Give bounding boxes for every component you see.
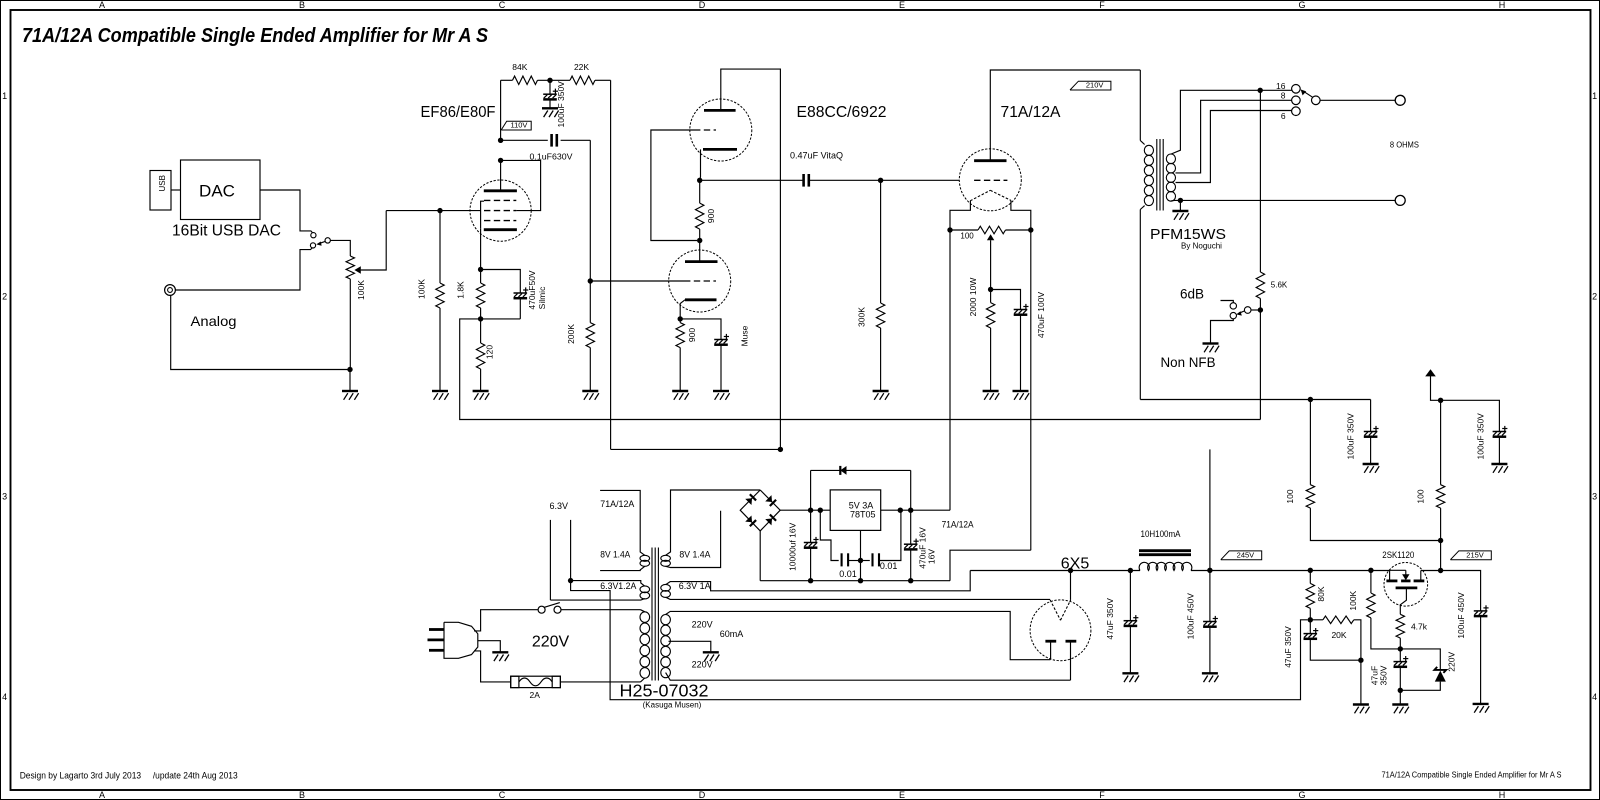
svg-text:1: 1 xyxy=(1592,91,1597,101)
svg-text:220V: 220V xyxy=(1447,652,1457,672)
P1 earth wire xyxy=(478,641,501,653)
svg-text:100uF 350V: 100uF 350V xyxy=(1346,413,1356,460)
ground C2 xyxy=(542,107,558,109)
svg-text:Silmic: Silmic xyxy=(537,286,547,309)
power transformer T2 H25-07032 core xyxy=(651,548,653,681)
bias cap C15 47uF 350V xyxy=(1309,620,1311,634)
svg-text:16: 16 xyxy=(1276,81,1286,91)
node first filter cap xyxy=(1128,568,1133,573)
tap terminal 16 xyxy=(1292,85,1301,94)
ground R9 xyxy=(873,390,889,392)
svg-text:47uF 350V: 47uF 350V xyxy=(1105,598,1115,640)
E88CC lower triode V2b xyxy=(669,250,731,312)
V2a cathode xyxy=(703,148,737,151)
svg-text:100uF 450V: 100uF 450V xyxy=(1186,593,1196,640)
svg-text:6.3V: 6.3V xyxy=(549,501,568,511)
V2a grid dashed xyxy=(694,129,716,131)
svg-text:2A: 2A xyxy=(529,690,540,700)
voltage flag 110V xyxy=(501,121,531,130)
svg-text:300K: 300K xyxy=(857,307,867,327)
svg-text:71A/12A: 71A/12A xyxy=(1001,104,1061,121)
svg-text:E: E xyxy=(899,0,905,10)
svg-text:100: 100 xyxy=(1416,489,1426,503)
voltage flag 245V xyxy=(1221,551,1262,560)
SRPP resistor R7 900 xyxy=(696,203,704,229)
T2 HV secondary 220V 60mA xyxy=(661,615,671,625)
node 215V out xyxy=(1438,568,1443,573)
tap terminal 6 xyxy=(1292,107,1301,116)
svg-text:1: 1 xyxy=(2,91,7,101)
svg-text:4: 4 xyxy=(2,692,7,702)
grid leak resistor R6 200K xyxy=(586,323,594,348)
wire switch node to NFB line xyxy=(1259,310,1261,420)
EF86 grid g1 dashed xyxy=(484,220,516,222)
node SRPP output xyxy=(697,178,702,183)
svg-text:78T05: 78T05 xyxy=(850,509,876,519)
P1 prongs xyxy=(429,628,444,631)
grid resistor R1 100K xyxy=(439,211,441,283)
wire source node up to droppers xyxy=(1440,541,1442,571)
AC plug P1 xyxy=(444,622,478,658)
svg-text:4: 4 xyxy=(1592,692,1597,702)
svg-text:E: E xyxy=(899,790,905,800)
svg-text:4.7k: 4.7k xyxy=(1411,621,1428,631)
filter cap C7 100uF 350V xyxy=(1370,400,1372,432)
node EF86 grid xyxy=(437,208,442,213)
filament rail left to regulator xyxy=(949,230,951,510)
ground R8 xyxy=(672,390,688,392)
U1 ground pin xyxy=(860,530,862,580)
svg-text:8: 8 xyxy=(1281,91,1286,101)
svg-text:2SK1120: 2SK1120 xyxy=(1382,550,1414,560)
V2b plate xyxy=(685,260,718,263)
6X5 tube V4 xyxy=(1030,600,1091,661)
ground bias divider xyxy=(1360,660,1362,704)
E88CC upper triode V2a xyxy=(690,99,752,161)
node plate feed g2 tap xyxy=(498,158,503,163)
reservoir cap C9 10000uf 16V xyxy=(810,510,812,542)
node 71A grid xyxy=(878,178,883,183)
ground R10 xyxy=(983,390,999,392)
node 80K top xyxy=(1308,568,1313,573)
USB connector box xyxy=(150,171,171,211)
output terminal minus xyxy=(1395,195,1405,205)
T2 winding 6.3V 1A right xyxy=(661,584,671,591)
V2a plate xyxy=(704,109,736,112)
node cathode return xyxy=(988,287,993,292)
svg-text:8 OHMS: 8 OHMS xyxy=(1390,140,1419,150)
wire analog input to selector switch xyxy=(175,248,312,290)
svg-text:8V 1.4A: 8V 1.4A xyxy=(600,550,630,560)
heater stub 6.3V wires xyxy=(549,520,551,600)
svg-text:245V: 245V xyxy=(1237,550,1255,559)
V4 right plate xyxy=(1066,640,1077,643)
svg-text:2000 10W: 2000 10W xyxy=(968,278,978,317)
0V rail xyxy=(760,580,950,582)
svg-text:100: 100 xyxy=(1285,489,1295,503)
svg-text:By Noguchi: By Noguchi xyxy=(1181,242,1222,251)
dropper resistor R13 100 xyxy=(1440,400,1442,484)
node V2b cathode xyxy=(678,316,683,321)
svg-text:16V: 16V xyxy=(926,549,936,564)
T1 secondary 8 ohm tap xyxy=(1176,100,1292,173)
node NFB takeoff xyxy=(1258,88,1263,93)
node 215V junction xyxy=(1438,538,1443,543)
svg-text:Muse: Muse xyxy=(740,325,750,346)
ground P1 earth xyxy=(492,651,508,653)
wire bridge minus to 0V rail xyxy=(759,531,761,581)
node lower plate / upper grid xyxy=(697,238,702,243)
svg-text:E88CC/6922: E88CC/6922 xyxy=(797,104,887,121)
svg-text:20K: 20K xyxy=(1331,630,1346,640)
volume potentiometer VR1 100K xyxy=(346,256,354,279)
node EF86 cathode xyxy=(478,267,483,272)
output terminal plus xyxy=(1395,95,1405,105)
bypass cap C4 Muse xyxy=(680,319,721,340)
V2b cathode lead xyxy=(680,300,685,319)
tap selector lever xyxy=(1303,91,1312,97)
svg-text:0.1uF630V: 0.1uF630V xyxy=(530,152,573,162)
output transformer T1 PFM15WS primary lead xyxy=(1139,70,1141,141)
svg-text:G: G xyxy=(1298,0,1305,10)
EF86 grid bracket and input xyxy=(440,210,481,212)
EF86 grid g3 dashed xyxy=(484,199,516,201)
svg-text:B: B xyxy=(299,0,305,10)
coupling cap C5 0.47uF VitaQ xyxy=(700,179,803,181)
svg-text:PFM15WS: PFM15WS xyxy=(1150,226,1226,243)
filter cap C13 47uF 350V xyxy=(1129,571,1131,621)
svg-text:84K: 84K xyxy=(512,62,527,72)
svg-text:C: C xyxy=(499,790,506,800)
node secondary ground xyxy=(1178,198,1183,203)
V3 plate lead to OPT xyxy=(990,70,1140,161)
svg-text:Analog: Analog xyxy=(191,313,237,329)
wire pot bottom to ground rail xyxy=(349,279,351,370)
V4 heater cathode xyxy=(1050,600,1060,620)
ground C4 xyxy=(713,390,729,392)
diode D3 xyxy=(745,515,752,522)
svg-text:470uF50V: 470uF50V xyxy=(527,270,537,310)
T1 secondary 6 ohm tap xyxy=(1176,111,1292,183)
svg-text:22K: 22K xyxy=(574,62,589,72)
svg-text:10000uf 16V: 10000uf 16V xyxy=(788,522,798,571)
T1 primary lead to B+ xyxy=(1139,210,1141,400)
tap selector pole xyxy=(1312,96,1321,105)
svg-text:3: 3 xyxy=(2,492,7,502)
svg-text:100K: 100K xyxy=(1348,590,1358,610)
svg-text:71A/12A Compatible Single Ende: 71A/12A Compatible Single Ended Amplifie… xyxy=(1382,771,1562,780)
71A tube V3 xyxy=(959,149,1021,211)
svg-text:100uF 350V: 100uF 350V xyxy=(556,81,566,128)
regulator U1 78T05 box xyxy=(830,490,881,531)
wire pole to output terminal xyxy=(1320,99,1395,101)
svg-text:DAC: DAC xyxy=(199,182,235,201)
tap terminal 8 xyxy=(1292,96,1301,105)
selector switch SW1 lever xyxy=(319,241,325,243)
svg-text:71A/12A: 71A/12A xyxy=(600,499,634,509)
node protection diode left xyxy=(818,508,823,513)
svg-text:200K: 200K xyxy=(566,324,576,344)
output cap C17 100uF 450V xyxy=(1441,571,1481,611)
svg-text:71A/12A Compatible Single Ende: 71A/12A Compatible Single Ended Amplifie… xyxy=(22,24,488,47)
VR2 wiper xyxy=(987,234,994,240)
svg-text:H: H xyxy=(1499,0,1506,10)
svg-text:100K: 100K xyxy=(356,280,366,300)
T2 winding 8V 1.4A left xyxy=(640,555,650,561)
svg-text:120: 120 xyxy=(485,345,495,359)
svg-text:100uF 350V: 100uF 350V xyxy=(1476,413,1486,460)
selector switch SW1 contact (Analog) xyxy=(310,243,315,248)
svg-text:47uF 350V: 47uF 350V xyxy=(1283,626,1293,668)
node NFB switch xyxy=(1258,307,1263,312)
245V rail xyxy=(1191,570,1390,572)
node gate network xyxy=(1398,646,1403,651)
selector switch SW1 pole xyxy=(325,238,330,243)
wire switch pole to volume pot xyxy=(330,240,350,256)
node filament right xyxy=(1028,227,1033,232)
wire node to lower plate xyxy=(699,241,701,262)
SW2 lower contact to ground xyxy=(1211,319,1234,344)
svg-text:6: 6 xyxy=(1281,111,1286,121)
svg-text:A: A xyxy=(99,0,105,10)
EF86 tube V1 xyxy=(470,180,531,241)
T1 secondary common wire xyxy=(1171,199,1395,202)
ground C8 xyxy=(1491,463,1507,465)
coupling cap C3 0.1uF630V xyxy=(501,139,548,141)
P1 live wire to mains switch xyxy=(474,610,538,631)
cathode resistor R10 2000 10W xyxy=(986,303,994,328)
node MOSFET drain rail xyxy=(1368,568,1373,573)
svg-text:A: A xyxy=(99,790,105,800)
svg-text:Non NFB: Non NFB xyxy=(1161,355,1216,370)
wire C3 to E88CC grid and 200K xyxy=(589,140,591,322)
node reservoir cap xyxy=(808,508,813,513)
svg-text:900: 900 xyxy=(687,328,697,342)
svg-text:B: B xyxy=(299,790,305,800)
cathode resistor R8 900 xyxy=(676,323,684,348)
svg-text:H25-07032: H25-07032 xyxy=(620,681,709,701)
node filament left xyxy=(947,227,952,232)
svg-text:100uF 450V: 100uF 450V xyxy=(1456,592,1466,639)
ground analog input xyxy=(349,370,351,392)
input bypass cap C10 0.01 xyxy=(820,510,838,560)
B+ raw rail xyxy=(970,570,1140,572)
node bias return xyxy=(1358,658,1363,663)
wire SW3 to transformer primary xyxy=(561,609,641,611)
Q1 gate lead xyxy=(1400,588,1406,614)
svg-text:D: D xyxy=(699,790,706,800)
decoupling resistor R5 22K xyxy=(570,76,595,84)
SW2 contact upper (6dB off) xyxy=(1230,303,1236,309)
B+ arrow up xyxy=(1431,376,1441,400)
svg-text:6.3V 1A: 6.3V 1A xyxy=(679,581,711,591)
svg-text:16Bit USB DAC: 16Bit USB DAC xyxy=(172,223,281,240)
SRPP B+ riser xyxy=(611,448,781,450)
EF86 plate xyxy=(484,189,517,192)
svg-text:8V 1.4A: 8V 1.4A xyxy=(679,550,710,560)
wire analog return xyxy=(171,295,350,369)
wire USB to DAC xyxy=(171,189,181,191)
P1 neutral wire to fuse xyxy=(474,651,511,682)
output cap C12 470uF 16V xyxy=(910,510,912,544)
node heater winding top xyxy=(568,578,573,583)
svg-text:Design by Lagarto 3rd July 201: Design by Lagarto 3rd July 2013 /update … xyxy=(20,771,238,781)
svg-text:1.8K: 1.8K xyxy=(456,281,466,299)
heater bias feed wire xyxy=(571,581,1308,700)
bridge rectifier D1-D4 xyxy=(740,490,780,531)
V3 filament xyxy=(970,190,990,201)
bias resistor R15 20K xyxy=(1323,616,1354,624)
node plate feed 0.1uF tap xyxy=(498,138,503,143)
V4 left plate xyxy=(1045,640,1056,643)
wire 84K to plate xyxy=(500,80,502,140)
svg-text:(Kasuga Musen): (Kasuga Musen) xyxy=(643,701,702,710)
Q1 drain stub xyxy=(1389,570,1391,580)
node C16 zener junction xyxy=(1398,688,1403,693)
NFB switch SW2 pole xyxy=(1244,307,1251,314)
svg-text:0.01: 0.01 xyxy=(880,561,898,571)
wire regulator output xyxy=(881,509,950,511)
SW2 lever xyxy=(1239,311,1245,313)
V3 filament legs xyxy=(950,201,970,230)
T1 secondary winding xyxy=(1166,154,1175,164)
node heater bias xyxy=(1308,617,1313,622)
V2a cathode lead xyxy=(700,149,702,177)
ground C17 xyxy=(1473,703,1489,705)
svg-text:3: 3 xyxy=(1592,492,1597,502)
node B+ filter left xyxy=(1308,397,1313,402)
svg-text:71A/12A: 71A/12A xyxy=(942,519,974,529)
T2 winding 6.3V1.2A left xyxy=(640,586,650,593)
filter cap C8 100uF 350V xyxy=(1441,400,1500,431)
node 0.01 caps xyxy=(858,558,863,563)
Q1 source stub xyxy=(1420,571,1422,581)
svg-text:900: 900 xyxy=(706,209,716,223)
svg-text:6X5: 6X5 xyxy=(1061,555,1090,572)
node output 0.01 riser xyxy=(898,508,903,513)
plate load resistor R4 84K xyxy=(501,79,513,81)
protection diode D5 xyxy=(810,470,812,510)
node choke out to driver B+ xyxy=(1207,568,1212,573)
ground C14 xyxy=(1202,672,1218,674)
node analog ground xyxy=(347,367,352,372)
T1 primary winding xyxy=(1140,141,1144,145)
cathode resistor R2 1.8K xyxy=(476,283,484,308)
wire grid node to lower triode xyxy=(590,280,684,282)
filter cap C14 100uF 450V xyxy=(1209,570,1211,621)
V4 cathode lead to B+ xyxy=(1070,571,1072,600)
EF86 cathode xyxy=(484,228,517,231)
svg-text:EF86/E80F: EF86/E80F xyxy=(421,104,496,121)
node B+ filter right xyxy=(1438,398,1443,403)
Q1 gate bar xyxy=(1396,587,1418,590)
diode D1 xyxy=(745,498,752,505)
V3 plate xyxy=(974,159,1006,162)
T1 core xyxy=(1156,139,1158,211)
svg-text:220V: 220V xyxy=(692,620,713,630)
ground R3 xyxy=(473,390,489,392)
choke L1 10H100mA xyxy=(1139,549,1191,552)
grid resistor R9 300K xyxy=(880,180,882,303)
wire DAC output to selector switch xyxy=(260,190,313,233)
SW2 contact lower (ground) xyxy=(1230,312,1236,318)
svg-text:6dB: 6dB xyxy=(1180,287,1204,302)
T2 primary 220V winding xyxy=(640,612,650,623)
T1 secondary 16 ohm tap xyxy=(1171,90,1292,154)
MOSFET Q1 2SK1120 xyxy=(1384,563,1428,607)
voltage flag 210V xyxy=(1070,81,1111,90)
V2a grid lead xyxy=(651,130,697,241)
svg-text:210V: 210V xyxy=(1086,81,1104,90)
node 6X5 cathode xyxy=(1068,568,1073,573)
Q1 body arrow xyxy=(1390,569,1406,571)
DAC box xyxy=(181,160,261,220)
hum balance pot VR2 100 xyxy=(950,229,978,231)
svg-text:G: G xyxy=(1298,790,1305,800)
fuse F1 2A xyxy=(511,676,561,687)
svg-text:470uF 100V: 470uF 100V xyxy=(1036,292,1046,339)
gate bias resistor R17 100K xyxy=(1370,570,1372,593)
ground C6 xyxy=(1013,390,1029,392)
V2b cathode xyxy=(685,298,717,301)
svg-text:C: C xyxy=(499,0,506,10)
svg-text:220V: 220V xyxy=(532,633,570,650)
bypass cap C6 470uF 100V xyxy=(991,290,1021,310)
gate cap C16 47uF 350V xyxy=(1399,649,1401,662)
svg-text:350V: 350V xyxy=(1379,665,1389,685)
svg-text:2: 2 xyxy=(2,291,7,301)
0V rail return to filament right xyxy=(950,550,1031,581)
svg-text:2: 2 xyxy=(1592,291,1597,301)
T2 HV center tap xyxy=(669,641,711,652)
gate resistor R16 4.7k xyxy=(1396,614,1404,638)
feedback resistor R3 120 xyxy=(476,343,484,369)
ground R6 xyxy=(582,390,598,392)
ground SW2 xyxy=(1203,342,1219,344)
diode D2 xyxy=(765,495,772,502)
node B+ decoupling xyxy=(547,78,552,83)
B+ rail to OPT xyxy=(1140,399,1370,401)
ground C7 xyxy=(1363,463,1379,465)
node E88CC grid xyxy=(588,278,593,283)
svg-text:220V: 220V xyxy=(692,660,713,670)
EF86 cathode lead xyxy=(480,228,482,269)
EF86 g2 stub to plate node (triode strap) xyxy=(502,160,541,210)
voltage flag 215V xyxy=(1450,551,1491,560)
output bypass cap C11 0.01 xyxy=(861,560,870,562)
bypass cap C1 470uF50V Silmic xyxy=(481,270,521,294)
svg-text:D: D xyxy=(699,0,706,10)
EF86 grid g2 dashed xyxy=(484,210,516,212)
svg-text:F: F xyxy=(1099,790,1105,800)
svg-text:80K: 80K xyxy=(1316,586,1326,601)
selector switch SW1 contact (DAC) xyxy=(311,233,316,238)
driver B+ riser xyxy=(1209,449,1211,570)
node output cap xyxy=(908,508,913,513)
wire pot wiper to EF86 grid node xyxy=(386,210,440,212)
V3 grid dashed xyxy=(974,179,1007,181)
ground HV center tap xyxy=(703,651,719,653)
ground gate network xyxy=(1399,690,1401,704)
svg-text:100: 100 xyxy=(960,232,974,241)
dropper resistor R12 100 xyxy=(1309,400,1311,485)
svg-text:USB: USB xyxy=(158,175,167,191)
wire bridge plus to regulator xyxy=(780,509,830,511)
NFB resistor R11 5.6K xyxy=(1259,90,1261,272)
NFB wire from cathode to output stage xyxy=(460,319,1261,420)
svg-text:0.47uF VitaQ: 0.47uF VitaQ xyxy=(790,151,843,161)
svg-text:100K: 100K xyxy=(416,279,426,299)
